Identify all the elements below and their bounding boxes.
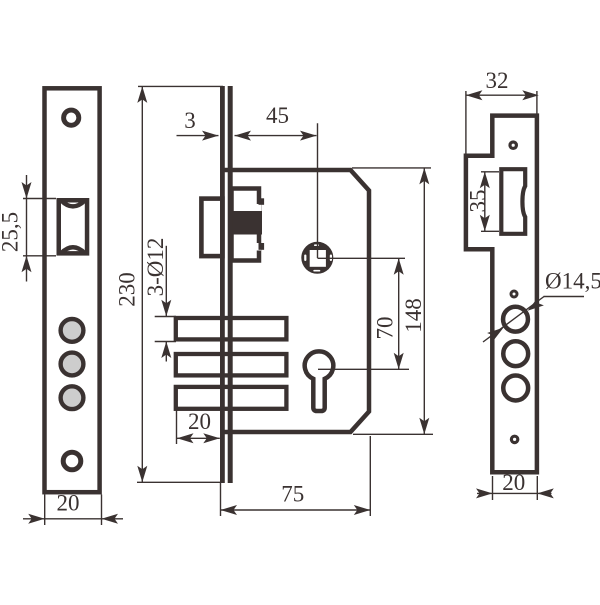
- centerline spindle horizontal: [318, 257, 406, 259]
- lock body outline: [222, 170, 369, 432]
- right view: strike plate: [466, 116, 537, 473]
- svg-text:20: 20: [502, 470, 525, 495]
- ext line 230 top: [138, 85, 223, 87]
- left view: top screw hole: [64, 110, 79, 125]
- strike latch opening: [501, 169, 525, 234]
- arrow 20R outside-right points left: [537, 488, 554, 498]
- left view: roller hole 3: [61, 386, 84, 409]
- svg-text:20: 20: [188, 409, 211, 434]
- ext line 148 bottom: [353, 433, 433, 435]
- latch tail lug top: [259, 198, 265, 205]
- left view: bottom screw hole: [63, 452, 81, 470]
- arrow 148 up: [419, 168, 429, 185]
- strike screw hole middle: [510, 290, 519, 299]
- ext line 75 left: [220, 483, 222, 516]
- arrow 148 down: [419, 418, 429, 435]
- arrowheads: [22, 86, 554, 523]
- faceplate edge right line: [228, 86, 233, 483]
- ext line 32 right: [536, 91, 538, 114]
- arrow 32 left end: [466, 90, 483, 100]
- svg-text:45: 45: [266, 103, 289, 128]
- arrow 75 left end: [221, 505, 238, 515]
- svg-text:75: 75: [281, 481, 304, 506]
- latch spring block: [229, 211, 262, 235]
- dim line 148: [423, 168, 425, 434]
- svg-text:20: 20: [57, 490, 80, 515]
- svg-text:230: 230: [115, 272, 140, 307]
- arrow 70 down: [394, 353, 404, 370]
- lever bar 3: [176, 387, 287, 409]
- follower slot right: [330, 255, 332, 262]
- ext line 25,5 bottom: [23, 255, 56, 257]
- faceplate edge left line: [220, 86, 225, 483]
- svg-text:35: 35: [466, 190, 491, 213]
- strike screw hole top: [508, 140, 518, 150]
- spindle follower disc: [301, 242, 333, 274]
- centerline keyhole: [318, 368, 409, 370]
- ext line 20 left b: [101, 495, 103, 526]
- arrow 3 points right: [202, 131, 219, 141]
- lever bar 2: [176, 354, 287, 375]
- arrow O14,5 upper: [528, 297, 544, 311]
- arrow 3-O12 lower (points up): [161, 342, 171, 359]
- ext line 25,5 top: [23, 198, 56, 200]
- centerline spindle vertical: [317, 123, 319, 258]
- latch spool bottom arc: [61, 247, 85, 253]
- dim line 20 mid: [177, 437, 220, 439]
- strike hole 3: [503, 376, 528, 401]
- svg-text:3-Ø12: 3-Ø12: [143, 238, 168, 297]
- svg-text:25,5: 25,5: [0, 212, 23, 252]
- ext line 20 left a: [44, 495, 46, 526]
- arrow 45 right end: [300, 131, 317, 141]
- follower slot bottom: [313, 270, 320, 272]
- arrow 20R outside-left points right: [476, 488, 493, 498]
- arrow 45 left end: [235, 131, 252, 141]
- dim line 32: [466, 94, 537, 96]
- leader O14,5: [483, 297, 544, 343]
- leader 3-O12 stem lower: [165, 342, 167, 362]
- strike hole 2: [503, 341, 528, 366]
- arrow 20L outside-left points right: [28, 514, 45, 524]
- arrow 70 up: [394, 258, 404, 275]
- thin dimension and extension lines: [23, 86, 584, 525]
- dim line 20 right view: [477, 492, 552, 494]
- svg-text:70: 70: [373, 317, 398, 340]
- follower slot top: [314, 244, 319, 246]
- latch bolt tail (inside body): [232, 189, 260, 261]
- latch tail lug bottom: [259, 243, 265, 250]
- ext line 148 top: [352, 167, 431, 169]
- dim line 70: [398, 258, 400, 369]
- dim line 35: [484, 172, 486, 232]
- arrow 20M left end: [177, 433, 194, 443]
- arrow 20L outside-right points left: [102, 514, 119, 524]
- ext line 20 right b: [536, 476, 538, 500]
- arrow O14,5 lower: [487, 328, 503, 342]
- ext line 230 bottom: [137, 481, 222, 483]
- dim line 75: [221, 509, 371, 511]
- dim line 20 left view: [23, 518, 123, 520]
- left view: roller hole 1: [61, 319, 84, 342]
- arrow 20M right end: [203, 433, 220, 443]
- arrow 35 down: [480, 215, 490, 232]
- dim line 3: [177, 135, 219, 137]
- leader 3-O12 stem: [165, 246, 167, 316]
- arrow 35 up: [480, 172, 490, 189]
- dim line 25,5: [26, 175, 28, 282]
- lever bar 1: [176, 318, 287, 339]
- ext line 3-O12 a: [155, 316, 176, 318]
- arrow 230 down: [137, 466, 147, 483]
- arrow 32 right end: [522, 90, 539, 100]
- ext line 35 top: [481, 171, 499, 173]
- left view: latch bolt opening (spool shape): [59, 200, 87, 253]
- strike plate outline: [466, 116, 537, 473]
- dimension texts: [0, 68, 600, 516]
- dim line 45: [235, 135, 317, 137]
- ext line 32 left: [465, 91, 467, 154]
- arrow 25,5 upper (points down): [22, 182, 32, 199]
- spindle square hole: [310, 250, 326, 267]
- ext line 20 right a: [492, 476, 494, 500]
- arrow 3-O12 upper (points down): [161, 300, 171, 317]
- ext line 3-O12 b: [155, 341, 176, 343]
- leader O14,5 underline shelf: [544, 296, 585, 298]
- strike screw hole bottom: [510, 435, 520, 445]
- strike hole 1: [503, 307, 528, 332]
- keyhole: [305, 351, 334, 411]
- ext line 35 bottom: [481, 230, 499, 232]
- left view: faceplate outline: [45, 88, 100, 492]
- svg-text:148: 148: [401, 298, 426, 333]
- arrow 25,5 lower (points up): [22, 256, 32, 272]
- svg-text:32: 32: [486, 68, 509, 93]
- ext line 20 mid: [176, 408, 178, 444]
- middle view: [176, 86, 369, 483]
- left view: roller hole 2: [61, 353, 84, 376]
- latch bolt head (left of faceplate): [201, 199, 222, 257]
- arrow 230 up: [137, 86, 147, 103]
- svg-text:3: 3: [184, 108, 196, 133]
- ext line 75 right: [369, 436, 371, 516]
- follower slot left: [304, 255, 306, 262]
- arrow 75 right end: [354, 505, 371, 515]
- svg-text:Ø14,5: Ø14,5: [545, 268, 600, 293]
- latch spool top arc: [61, 200, 85, 206]
- latch tail notch bottom: [254, 243, 261, 251]
- latch tail notch top: [254, 204, 261, 212]
- dim line 230: [141, 86, 143, 482]
